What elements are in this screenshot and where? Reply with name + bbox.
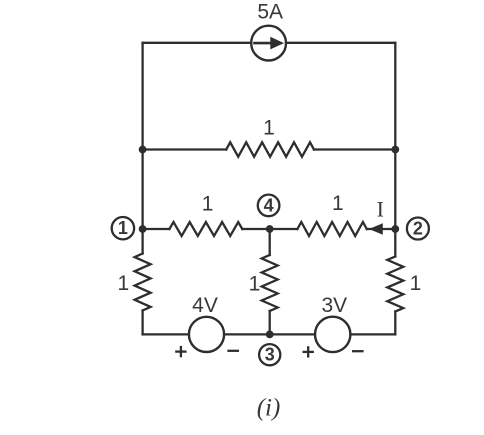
label plus of 4V [175,346,186,357]
label minus of 4V [227,350,239,352]
wire row3 left stub [143,228,170,230]
resistor middle vertical (1 ohm) [262,255,278,311]
svg-text:1: 1 [249,273,261,296]
wire row3 middle [242,228,297,230]
resistor left vertical (1 ohm) [135,254,151,311]
wire top right segment [286,42,395,44]
current source I1 5A [251,26,286,61]
svg-text:I: I [377,197,384,222]
svg-text:3V: 3V [321,294,347,317]
junction dot node 1 [139,225,147,233]
resistor row3 right (1 ohm) [297,222,366,236]
node circle 2 [407,218,429,240]
junction dot row2 right [391,146,399,154]
current arrow I (pointing left) [369,223,383,234]
junction dot node 3 [266,331,274,339]
wire bottom segment 2 [224,333,315,335]
wire bottom segment 3 [350,333,395,335]
wire bottom segment 1 [143,333,189,335]
wire row2 left segment [143,148,227,150]
svg-text:2: 2 [413,219,423,239]
node circle 3 [259,344,280,365]
voltage source V1 4V [189,317,224,352]
node circle 1 [112,217,134,239]
wire middle vertical top [269,229,271,255]
label plus of 3V [303,346,314,357]
wire top left segment [143,42,252,44]
wire [394,312,396,335]
svg-text:1: 1 [332,192,344,215]
svg-text:1: 1 [410,272,422,295]
wire row2 right segment [314,148,395,150]
svg-text:1: 1 [263,116,275,139]
svg-text:1: 1 [117,272,129,295]
resistor row3 left (1 ohm) [169,222,242,236]
svg-text:4V: 4V [192,294,218,317]
resistor right vertical (1 ohm) [387,257,403,312]
svg-text:1: 1 [202,193,214,216]
wire middle vertical bottom [269,311,271,334]
svg-text:(i): (i) [257,395,281,422]
wire right vertical [394,43,396,257]
svg-text:5A: 5A [257,0,283,23]
junction dot node 2 [391,225,399,233]
svg-text:3: 3 [265,345,275,365]
resistor R top (1 ohm) [226,142,314,156]
wire left vertical (top corner to bottom corner, through resistor gap) [141,43,143,254]
wire row3 right stub [367,228,396,230]
node circle 4 [258,195,280,217]
junction dot row2 left [139,146,147,154]
junction dot node 4 [266,225,274,233]
label minus of 3V [352,350,364,352]
voltage source V2 3V [315,317,350,352]
wire [141,311,143,335]
svg-text:1: 1 [118,218,128,238]
svg-text:4: 4 [264,195,274,215]
